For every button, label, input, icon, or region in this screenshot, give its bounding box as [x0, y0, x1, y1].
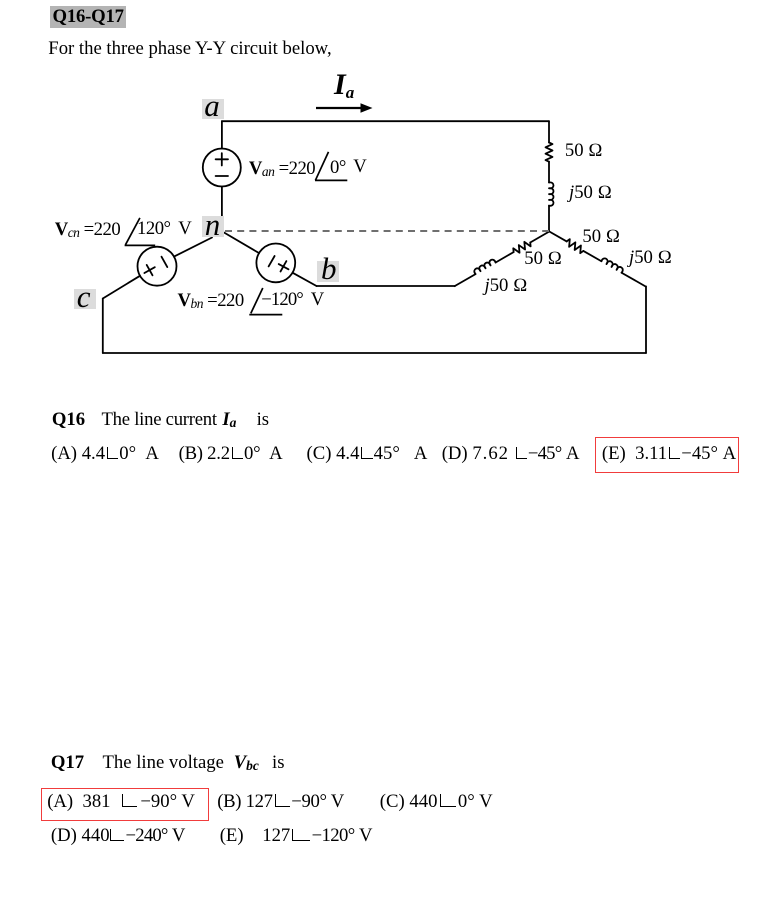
voltage source Vbn	[256, 244, 295, 283]
Q17 options row 1	[47, 793, 195, 812]
value label Vcn unit	[178, 220, 191, 239]
current label Ia	[334, 70, 354, 101]
inductor j50ohm phase b	[473, 259, 496, 275]
wire star point to resistor phase b	[530, 232, 549, 243]
Q17 answer box	[41, 788, 210, 822]
node c label background	[74, 289, 96, 309]
node a label	[204, 90, 220, 121]
wire top to resistor phase a	[548, 121, 550, 142]
Q16 options	[51, 445, 159, 464]
value label Vbn unit	[311, 291, 324, 310]
voltage source Van	[203, 149, 241, 187]
intro text	[48, 40, 331, 59]
Q16 title	[52, 411, 85, 430]
source Vcn circle	[138, 247, 177, 286]
neutral dashed wire n to load star point	[225, 230, 549, 232]
voltage source Vcn	[138, 247, 177, 286]
source Vbn circle	[256, 244, 295, 283]
wire node n to source Vcn	[174, 238, 212, 257]
wire star point to resistor phase c	[549, 232, 566, 242]
wire resistor to inductor phase a	[548, 162, 550, 183]
angle mark of Vcn label	[125, 218, 156, 246]
wire resistor to inductor phase c	[583, 251, 601, 261]
wire inductor to star point	[548, 206, 550, 232]
source Van circle	[203, 149, 241, 187]
source Van plus sign	[216, 153, 228, 165]
wire top from node a to load branch	[222, 120, 549, 122]
inductor j50ohm phase a	[549, 182, 554, 205]
Q17 options row 2	[51, 827, 186, 846]
wire right vertical	[645, 286, 647, 353]
wire source Vcn to node c	[103, 276, 140, 299]
resistor 50ohm phase c	[565, 238, 585, 254]
node n label	[205, 209, 221, 240]
value label Vcn angle value	[137, 220, 171, 239]
value label Vcn	[55, 221, 121, 240]
inductor j50ohm phase c	[601, 257, 624, 273]
wire resistor to inductor phase b	[496, 252, 514, 262]
wire source Vbn to node b	[293, 273, 317, 286]
source Vcn plus sign	[144, 265, 154, 275]
Q16 answer box	[595, 437, 739, 472]
source Van minus sign	[216, 175, 228, 177]
heading Q16-Q17	[50, 6, 126, 28]
current arrow Ia	[316, 103, 373, 112]
value label j50ohm phase b inductor	[485, 277, 528, 296]
node c label	[77, 281, 91, 312]
node b label background	[317, 261, 339, 282]
wire source Van to node n	[221, 187, 223, 217]
value label Vbn angle value	[261, 291, 303, 310]
angle mark of Van label	[315, 152, 347, 181]
value label j50ohm phase a inductor	[569, 184, 612, 203]
current arrow shaft	[316, 107, 362, 109]
Q17 title	[51, 754, 84, 773]
resistor 50ohm phase b	[512, 239, 532, 255]
wire node n to source Vbn	[224, 233, 259, 254]
value label Van angle value	[330, 159, 346, 178]
wire node b horizontal	[317, 285, 456, 287]
current arrow head	[361, 103, 373, 112]
value label Vbn	[178, 292, 244, 311]
source Vbn minus and plus signs	[269, 256, 289, 272]
value label 50ohm phase b resistor	[524, 250, 562, 269]
wire node a down to source Van	[221, 121, 223, 148]
value label 50ohm phase a resistor	[565, 142, 603, 161]
wire node c down	[102, 299, 104, 354]
node a label background	[202, 99, 224, 119]
value label Van unit	[353, 158, 366, 177]
source Vcn minus sign	[162, 257, 168, 267]
angle mark of Vbn label	[249, 288, 282, 315]
circuit SVG	[0, 0, 768, 380]
wire inductor to corner	[622, 273, 646, 287]
wire inductor to node b wire	[455, 274, 476, 286]
node n label background	[202, 216, 224, 237]
value label Van	[249, 160, 315, 179]
resistor 50ohm phase a	[546, 143, 553, 162]
value label 50ohm phase c resistor	[582, 228, 620, 247]
value label j50ohm phase c inductor	[629, 249, 672, 268]
wire bottom	[103, 352, 646, 354]
node b label	[321, 253, 337, 284]
